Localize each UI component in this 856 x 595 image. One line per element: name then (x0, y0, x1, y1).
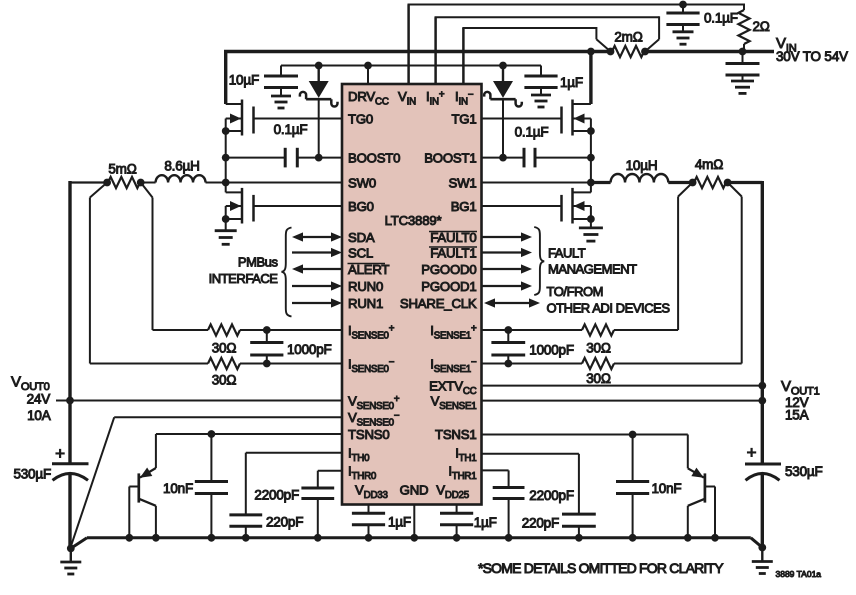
arrow PGOOD0 (482, 264, 532, 273)
wire SW1 to Q4 drain (590, 183, 592, 193)
node dot ISENSE0+ filter (263, 326, 271, 334)
label figure number (776, 569, 822, 579)
label 30Ohm upper-left (212, 341, 237, 356)
capacitor 220pF ITH1 (562, 514, 596, 538)
svg-text:GND: GND (400, 483, 429, 498)
svg-text:530µF: 530µF (13, 467, 51, 482)
svg-text:0.1µF: 0.1µF (704, 11, 738, 26)
svg-text:2mΩ: 2mΩ (614, 30, 642, 45)
label VOUT1 (781, 378, 820, 398)
op-amp U1 LTC3889 controller body (342, 84, 482, 505)
svg-text:10µH: 10µH (626, 158, 658, 173)
svg-text:30V TO 54V: 30V TO 54V (776, 49, 848, 64)
svg-text:4mΩ: 4mΩ (695, 157, 723, 172)
label 220pF right (522, 516, 559, 531)
svg-text:0.1µF: 0.1µF (274, 122, 308, 137)
svg-text:3889 TA01a: 3889 TA01a (776, 569, 822, 579)
node dot ISENSE1+ filter (504, 326, 512, 334)
wire SW1 (482, 182, 591, 184)
wire VOUT0 rail vertical (thick) (68, 181, 71, 548)
node dot Q2 source (587, 127, 595, 135)
svg-text:PGOOD0: PGOOD0 (421, 262, 476, 277)
wire VDD33 pin (368, 504, 370, 513)
svg-text:1000pF: 1000pF (287, 342, 332, 357)
wire SW0 (206, 182, 343, 184)
capacitor 220pF ITH0 (229, 515, 262, 538)
transistor Q4 bottom NMOS (right) (562, 188, 591, 224)
wire BG1 (482, 205, 562, 207)
node dot SW0 (222, 179, 230, 187)
svg-text:BG1: BG1 (451, 199, 477, 214)
label 10uH (626, 158, 658, 173)
resistor 5mOhm output sense (left) (108, 177, 140, 188)
brace PMBus group (282, 228, 292, 317)
label 1uF VDD33 (388, 515, 411, 530)
svg-text:SCL: SCL (348, 246, 373, 261)
svg-text:10nF: 10nF (652, 481, 682, 496)
svg-text:FAULT0: FAULT0 (430, 230, 476, 245)
svg-text:530µF: 530µF (785, 464, 823, 479)
wire BOOST0 (226, 157, 342, 159)
brace FAULT group (534, 227, 544, 295)
label 8.6uH (164, 159, 199, 174)
svg-text:1µF: 1µF (388, 515, 411, 530)
node dot SW1 (587, 179, 595, 187)
label 30Ohm lower-right (586, 371, 611, 386)
svg-text:MANAGEMENT: MANAGEMENT (548, 262, 637, 277)
svg-text:RUN1: RUN1 (348, 296, 383, 311)
label PMBus (238, 255, 279, 270)
label 2Ohm (753, 19, 770, 34)
svg-text:FAULT: FAULT (548, 246, 586, 261)
label 1000pF right (529, 343, 574, 358)
arrow ALERT (out of IC) (292, 264, 342, 273)
wire ITH0 (246, 453, 342, 515)
wire 5mOhm to VOUT0 rail (70, 181, 156, 183)
svg-text:BG0: BG0 (348, 199, 374, 214)
svg-text:220pF: 220pF (522, 516, 559, 531)
wire TSNS0 (156, 434, 342, 468)
resistor 30Ohm ISENSE0- (208, 358, 240, 369)
svg-text:PMBus: PMBus (238, 255, 279, 270)
node dot Q3 source (222, 215, 230, 223)
arrow SDA (bidirectional) (292, 232, 342, 241)
svg-text:TG0: TG0 (348, 112, 373, 127)
label 10nF right (652, 481, 682, 496)
node dot Q4 source (587, 215, 595, 223)
capacitor 10nF TSNS1 (616, 435, 649, 538)
svg-text:PGOOD1: PGOOD1 (421, 279, 476, 294)
svg-text:30Ω: 30Ω (212, 341, 237, 356)
ground right output (752, 544, 773, 574)
label 15A (785, 408, 809, 423)
node dot TSNS0-10nF (208, 430, 216, 438)
capacitor 10uF DRVCC bypass (264, 66, 298, 109)
inductor L1 8.6uH (156, 175, 206, 182)
label 1000pF left (287, 342, 332, 357)
svg-text:TG1: TG1 (451, 112, 476, 127)
svg-text:TSNS1: TSNS1 (435, 427, 477, 442)
arrow SHARE_CLK (bidirectional) (484, 298, 540, 307)
wire ITHR0 (318, 471, 342, 488)
arrow FAULT0 (482, 232, 532, 241)
label 0.1uF bootstrap right (515, 125, 549, 140)
node dots 4mOhm kelvin (689, 179, 732, 187)
svg-text:1000pF: 1000pF (529, 343, 574, 358)
capacitor 0.1uF (VIN pin filter) (666, 5, 699, 32)
svg-text:FAULT1: FAULT1 (430, 246, 476, 261)
svg-text:+: + (55, 444, 65, 463)
wire SW1 to L2 (thick) (591, 181, 611, 184)
node dot ISENSE1- filter (504, 360, 512, 368)
wire DRVCC distribution (281, 66, 541, 85)
svg-text:15A: 15A (785, 408, 809, 423)
label 10nF left (163, 481, 193, 496)
node dot EXTVCC-VOUT1 (758, 382, 766, 390)
label 1uF VDD25 (474, 515, 497, 530)
label 12V (785, 395, 809, 410)
node VIN-rail junction dots (587, 48, 746, 56)
node dot VIN-line to 0.1uF (679, 1, 687, 9)
label 530uF left (13, 467, 51, 482)
wire IIN+ sense line (435, 16, 660, 84)
wire VSENSE0- (remote gnd sense) (71, 417, 342, 546)
label 0.1uF (VIN filter) (704, 11, 738, 26)
IC pin labels (348, 89, 478, 501)
resistor 30Ohm ISENSE1- (582, 358, 614, 369)
capacitor 10nF TSNS0 (195, 434, 228, 538)
label 24V (27, 392, 51, 407)
label 5mOhm (108, 162, 136, 177)
node dots 5mOhm kelvin (103, 179, 144, 187)
ground Q4 source (579, 219, 603, 241)
wire GND bottom rail (thick) (71, 538, 763, 549)
svg-text:*SOME DETAILS OMITTED FOR CLAR: *SOME DETAILS OMITTED FOR CLARITY (478, 560, 724, 576)
svg-text:SW1: SW1 (449, 176, 477, 191)
svg-text:BOOST0: BOOST0 (348, 151, 400, 166)
wire 4mOhm to VOUT1 rail (thick) (726, 181, 762, 184)
wire ISENSE1+ path (482, 183, 693, 331)
label 4mOhm (695, 157, 723, 172)
transistor Q5 temp sense PNP (left) (129, 467, 156, 537)
label VOUT0 (11, 374, 50, 394)
svg-text:SW0: SW0 (348, 176, 376, 191)
transistor Q6 temp sense PNP (right) (688, 468, 715, 538)
wire ITHR1 (482, 470, 509, 487)
node dot Q1 source (222, 127, 230, 135)
svg-text:2200pF: 2200pF (254, 488, 299, 503)
wire ISENSE0- path (90, 183, 342, 364)
wire Q1 source to SW0 node (225, 131, 227, 183)
svg-text:TSNS0: TSNS0 (348, 427, 390, 442)
ground left output (60, 545, 81, 575)
svg-text:30Ω: 30Ω (586, 341, 611, 356)
node dots bottom rail (125, 534, 718, 542)
svg-text:30Ω: 30Ω (212, 373, 237, 388)
wire L2 to 4mOhm (thick) (668, 181, 694, 184)
svg-text:TO/FROM: TO/FROM (547, 284, 604, 299)
label 0.1uF bootstrap left (274, 122, 308, 137)
wire SW0 to Q3 drain (225, 183, 227, 193)
node dots BOOST0 (222, 154, 323, 162)
capacitor 1uF VDD33 (352, 513, 385, 538)
wire BG0 (254, 205, 343, 207)
label 530uF right (785, 464, 823, 479)
capacitor 2200pF ITHR1 (493, 488, 525, 538)
wire VIN top rail (thick) (224, 50, 774, 104)
transistor Q2 top NMOS (right) (562, 100, 591, 136)
wire ITH1 (482, 454, 579, 514)
capacitor 1uF DRVCC-right bypass (524, 66, 557, 108)
wire VDD25 pin (456, 504, 458, 513)
capacitor 1000pF ISENSE0 filter (250, 330, 283, 364)
wire VIN pin line (408, 5, 745, 85)
svg-text:RUN0: RUN0 (348, 279, 383, 294)
label 2mOhm (614, 30, 642, 45)
wire ISENSE0+ path (141, 183, 342, 331)
wire TG0 (254, 118, 343, 120)
wire BOOST1 (482, 157, 591, 159)
svg-text:BOOST1: BOOST1 (424, 151, 476, 166)
label 2200pF left (254, 488, 299, 503)
svg-text:OTHER ADI DEVICES: OTHER ADI DEVICES (547, 301, 671, 316)
svg-text:2200pF: 2200pF (529, 488, 574, 503)
resistor 4mOhm output sense (right) (694, 177, 726, 188)
resistor 2 Ohm (VIN pin) (738, 4, 749, 52)
label 10uF (229, 73, 259, 88)
label OTHER ADI DEVICES (547, 301, 671, 316)
capacitor 530uF VOUT0 (+ plate and arc) (52, 444, 89, 480)
svg-text:SHARE_CLK: SHARE_CLK (400, 296, 477, 311)
capacitor 1000pF ISENSE1 filter (491, 330, 525, 364)
svg-text:1µF: 1µF (560, 75, 583, 90)
arrow FAULT1 (482, 248, 532, 257)
wire VIN rail drop to Q2 drain (thick) (589, 50, 592, 104)
svg-text:0.1µF: 0.1µF (515, 125, 549, 140)
capacitor 0.1uF bootstrap (right) (524, 148, 535, 168)
wire IIN- sense line (462, 27, 610, 84)
node dot TSNS1-10nF (629, 431, 637, 439)
svg-text:5mΩ: 5mΩ (108, 162, 136, 177)
label 30Ohm lower-left (212, 373, 237, 388)
node dots BOOST1 (499, 154, 595, 162)
label 1uF (top) (560, 75, 583, 90)
label 30Ohm upper-right (586, 341, 611, 356)
label footnote (478, 560, 724, 576)
capacitor 530uF VOUT1 (+ plate and arc) (745, 443, 781, 480)
svg-text:30Ω: 30Ω (586, 371, 611, 386)
label 10A (27, 408, 51, 423)
arrow SCL (into IC) (292, 248, 342, 257)
node dots on DRVCC wire (315, 62, 507, 70)
label 2200pF right (529, 488, 574, 503)
arrow RUN1 (into IC) (292, 298, 342, 307)
svg-text:8.6µH: 8.6µH (164, 159, 199, 174)
wire VOUT1 rail vertical (thick) (761, 181, 764, 548)
diode D2 bootstrap schottky (right) (484, 66, 522, 158)
label VIN net (776, 35, 797, 55)
diode D1 bootstrap schottky (left) (300, 66, 338, 158)
node dot ISENSE0- filter (263, 360, 271, 368)
ground below 0.1uF VIN filter (673, 32, 694, 44)
capacitor 1uF VDD25 (440, 513, 473, 538)
transistor Q1 top NMOS (left) (226, 100, 254, 136)
svg-text:LTC3889*: LTC3889* (385, 213, 442, 228)
wire TG1 (482, 118, 562, 120)
resistor 2mOhm input current sense (612, 46, 644, 57)
wire TSNS1 (482, 435, 688, 469)
label VIN range (776, 49, 848, 64)
transistor Q3 bottom NMOS (left) (226, 188, 254, 224)
capacitor VIN rail bypass + ground (726, 52, 760, 94)
wire VSENSE1 to VOUT1 (482, 400, 762, 402)
wire ISENSE1- path (482, 183, 742, 364)
node dot VSENSE1-VOUT1 (758, 397, 766, 405)
label 220pF left (266, 515, 303, 530)
ground Q3 source (215, 219, 237, 244)
label FAULT (548, 246, 586, 261)
capacitor 0.1uF bootstrap (left) (285, 148, 297, 168)
svg-text:2Ω: 2Ω (753, 19, 770, 34)
wire VSENSE0+ / VOUT0 (56, 400, 342, 402)
svg-text:SDA: SDA (348, 230, 375, 245)
svg-text:+: + (747, 443, 757, 462)
wire Q2 source to SW1 node (590, 131, 592, 183)
svg-text:10A: 10A (27, 408, 51, 423)
wire GND pin (413, 504, 415, 538)
node dot VOUT0 (66, 397, 74, 405)
arrow RUN0 (into IC) (292, 281, 342, 290)
svg-text:10nF: 10nF (163, 481, 193, 496)
svg-text:ALERT: ALERT (348, 262, 389, 277)
arrow PGOOD1 (482, 281, 532, 290)
label MANAGEMENT (548, 262, 637, 277)
wire EXTVCC to VOUT1 (482, 385, 762, 387)
svg-text:INTERFACE: INTERFACE (209, 271, 279, 286)
label TO/FROM (547, 284, 604, 299)
resistor 30Ohm ISENSE1+ (582, 324, 614, 335)
resistor 30Ohm ISENSE0+ (208, 324, 240, 335)
inductor L2 10uH (611, 174, 669, 183)
svg-text:1µF: 1µF (474, 515, 497, 530)
svg-text:220pF: 220pF (266, 515, 303, 530)
svg-text:10µF: 10µF (229, 73, 259, 88)
capacitor 2200pF ITHR0 (301, 488, 334, 538)
label INTERFACE (209, 271, 279, 286)
svg-text:24V: 24V (27, 392, 51, 407)
